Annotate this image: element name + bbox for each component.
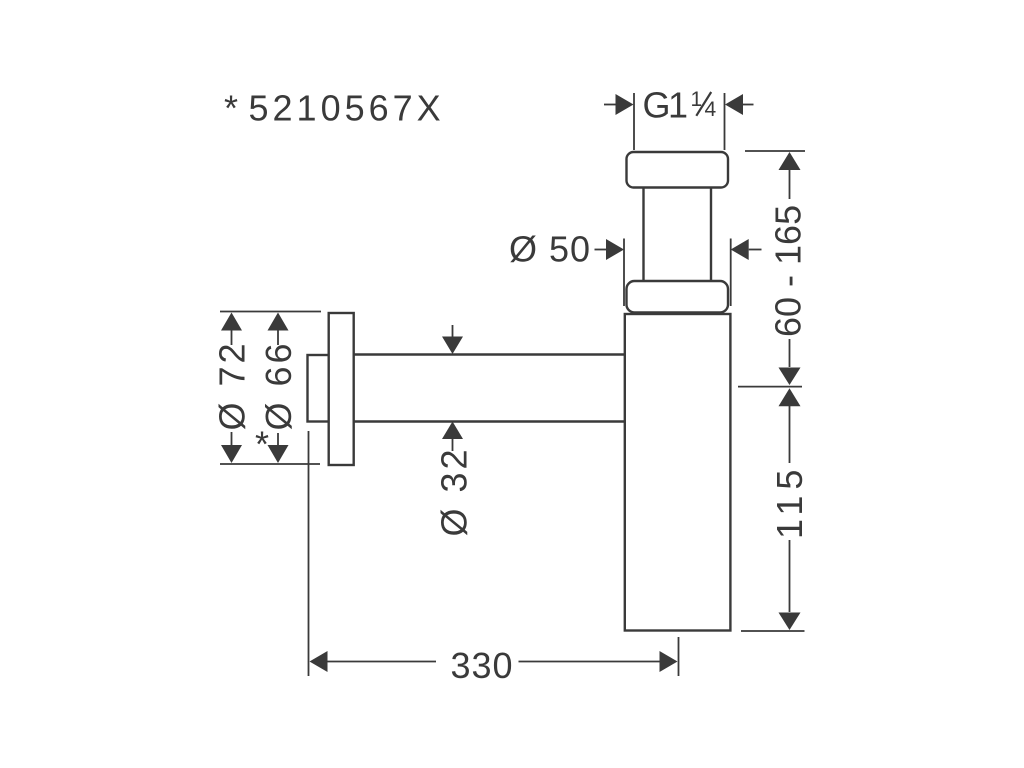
- horizontal drain pipe top edge: [354, 353, 625, 355]
- width 330 left extension line: [308, 431, 310, 676]
- diameter 66 lower line: [277, 433, 279, 446]
- height 60-165 lower line: [789, 339, 791, 367]
- G1 1/4 right leader line: [743, 104, 754, 106]
- svg-text:5210567X: 5210567X: [249, 88, 445, 129]
- diameter 66 bottom arrow: [268, 445, 289, 463]
- width 330 right line: [519, 661, 660, 663]
- vertical inlet pipe neck right edge: [710, 187, 712, 282]
- diameter 72 bottom extension line: [220, 463, 320, 465]
- wall flange plate: [329, 313, 354, 465]
- svg-text:115: 115: [769, 464, 810, 539]
- height 60-165 upper line: [789, 169, 791, 199]
- height 60-165 top arrow: [779, 152, 801, 170]
- diameter 32 label: [434, 446, 475, 536]
- diameter 50 right arrow: [731, 239, 749, 260]
- svg-text:60 - 165: 60 - 165: [768, 205, 809, 337]
- height 115 lower line: [789, 540, 791, 612]
- width 330 left arrow: [310, 651, 328, 672]
- diameter 50 right leader line: [749, 249, 762, 251]
- top union nut G1 1/4: [627, 152, 729, 188]
- diameter 66 top arrow: [268, 313, 289, 331]
- diameter 32 lower leader line: [452, 439, 454, 451]
- diameter 72 top arrow: [221, 313, 242, 331]
- height 115 bottom tick: [741, 630, 805, 632]
- diameter 50 label: [509, 229, 591, 270]
- vertical inlet pipe neck left edge: [642, 187, 644, 282]
- width 330 right extension line: [678, 637, 680, 676]
- diameter 66 upper line: [277, 331, 279, 346]
- svg-text:*: *: [255, 424, 269, 465]
- G1 1/4 left leader line: [604, 104, 616, 106]
- diameter 50 left leader line: [595, 249, 608, 251]
- diameter 32 top arrow: [442, 337, 463, 355]
- diameter 72 lower line: [231, 432, 233, 446]
- height 115 bottom arrow: [779, 613, 801, 631]
- G1 1/4 dimension label: [643, 85, 690, 126]
- svg-text:Ø 72: Ø 72: [212, 340, 253, 430]
- svg-text:1: 1: [668, 85, 689, 126]
- G1 1/4 right arrow: [725, 94, 743, 115]
- height 115 upper line: [789, 406, 791, 463]
- svg-text:Ø 32: Ø 32: [434, 446, 475, 536]
- diameter 66 star footnote: [255, 424, 269, 465]
- height reference middle tick: [738, 386, 802, 388]
- wall-side pipe stub: [308, 355, 329, 422]
- height 60-165 top tick: [745, 150, 805, 152]
- diameter 50 left extension line: [623, 239, 625, 307]
- diameter 72 upper line: [231, 331, 233, 346]
- height 115 top arrow: [779, 388, 801, 406]
- svg-text:330: 330: [451, 645, 514, 686]
- horizontal drain pipe bottom edge: [354, 420, 625, 422]
- width 330 right arrow: [660, 651, 678, 672]
- width 330 label: [451, 645, 514, 686]
- diameter 50 left arrow: [606, 239, 624, 260]
- article number label *5210567X: [224, 88, 445, 129]
- G1 1/4 left extension line: [633, 93, 635, 150]
- diameter 32 bottom arrow: [442, 422, 463, 440]
- diameter 72 top extension line: [220, 311, 321, 313]
- diameter 50 right extension line: [730, 239, 732, 307]
- svg-text:Ø 66: Ø 66: [258, 340, 299, 430]
- svg-text:Ø 50: Ø 50: [509, 229, 591, 270]
- G1 1/4 left arrow: [616, 94, 634, 115]
- diameter 72 bottom arrow: [221, 445, 242, 463]
- width 330 left line: [328, 661, 437, 663]
- lower collar nut: [627, 281, 729, 313]
- svg-text:*: *: [224, 88, 242, 129]
- height 60-165 bottom arrow: [779, 368, 801, 386]
- siphon body cup: [625, 314, 731, 631]
- diameter 32 upper leader line: [452, 325, 454, 337]
- height 115 label: [769, 464, 810, 539]
- diameter 66 label: [258, 340, 299, 430]
- height 60-165 label: [768, 205, 809, 337]
- G1 1/4 right extension line: [724, 93, 726, 150]
- diameter 72 label: [212, 340, 253, 430]
